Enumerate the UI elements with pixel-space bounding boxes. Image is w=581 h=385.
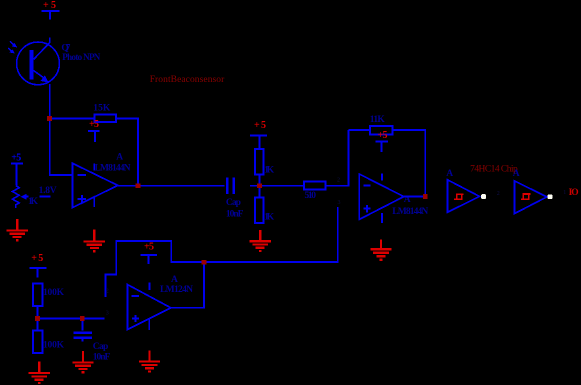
power +5 P7 (divider R6 top) [29,253,46,278]
node C junction dot [35,316,40,321]
resistor R5 11K [370,126,392,135]
resistor R7 100K (lower) [33,330,42,353]
resistor R4 1K (lower) [255,198,264,223]
node U1 output junction dot [136,183,141,188]
svg-text:100K: 100K [43,288,65,298]
wire feedback loop to U4 inverting input [106,241,205,297]
wire U2 non-inverting input from follower [204,207,338,262]
svg-text:+5: +5 [89,119,99,130]
potentiometer RV1 1K [12,186,50,208]
svg-text:Cap: Cap [226,198,241,208]
svg-text:3: 3 [106,311,109,317]
wire C1 to node B and resistor R3 [250,185,304,187]
svg-text:LM8144N: LM8144N [95,163,131,173]
wire node C to U4 non-inverting input [38,317,105,319]
svg-text:2: 2 [337,178,340,184]
svg-text:A: A [116,153,123,163]
svg-text:+5: +5 [378,130,388,141]
svg-text:1.8V: 1.8V [39,186,57,196]
svg-text:LM124N: LM124N [160,285,193,295]
node U2 output junction dot [423,194,428,199]
wire R2 bottom to node B [258,174,260,186]
svg-text:11K: 11K [370,115,386,125]
svg-text:IO: IO [569,188,579,198]
ground (below op-amp U1) [84,230,105,252]
svg-text:1K: 1K [264,213,275,223]
power +5 P6 (op-amp U4 supply) [140,242,157,265]
svg-text:10nF: 10nF [93,352,111,362]
svg-text:Cap: Cap [93,342,109,352]
ground (below R4) [250,230,271,251]
resistor R2 1K (upper) [255,149,264,174]
svg-text:A: A [513,169,520,179]
node A junction dot [47,116,52,121]
wire node A right to resistor R1 [50,117,95,119]
svg-text:100K: 100K [43,341,65,351]
svg-text:1K: 1K [264,166,275,176]
svg-text:A: A [446,169,453,179]
node follower output junction dot [202,260,207,265]
wire follower output up to junction [171,262,204,308]
svg-text:15K: 15K [93,104,111,114]
wire feedback top to resistor R5 [348,129,370,131]
wire U2 output to junction [404,196,426,198]
wire R5 right to U2 output node [393,130,426,194]
svg-text:2: 2 [106,289,109,295]
ground (below capacitor C2) [72,351,93,372]
wire emitter of Q7 down to node A [49,84,51,118]
resistor R6 100K (upper) [33,283,42,306]
svg-text:74HC14 Chip: 74HC14 Chip [470,165,518,175]
svg-text:LM8144N: LM8144N [392,207,428,217]
svg-text:Photo NPN: Photo NPN [62,52,101,62]
power +5 P4 (divider R2 top) [250,120,267,149]
svg-text:2: 2 [497,191,500,197]
op-amp U2 LM8144N [359,173,404,223]
ground (below R7) [29,362,50,383]
capacitor C1 10nF (series coupling) [227,178,234,195]
svg-text:510: 510 [305,191,317,201]
svg-text:3: 3 [338,200,341,206]
op-amp U4 LM124N [127,283,170,330]
ground (below potentiometer RV1) [7,219,28,241]
schmitt inverter U3A [448,180,487,213]
svg-text:1K: 1K [28,197,39,207]
svg-text:1: 1 [563,190,566,196]
resistor R1 15K [95,115,116,122]
svg-text:10nF: 10nF [226,210,244,220]
wire R3 to op-amp U2 inverting branch [326,130,349,186]
wire R1 right side down to op-amp U1 output node [116,118,138,185]
svg-text:A: A [171,275,178,285]
transistor Q7 phototransistor [17,38,60,85]
ground (below op-amp U4) [139,350,160,371]
svg-text:+5: +5 [144,242,154,253]
resistor R3 510 [304,181,325,189]
wire node B to resistor R4 [258,186,260,198]
wire node C to resistor R7 [37,318,39,330]
ground (below op-amp U2) [370,239,391,259]
power +5 P5 (op-amp U2 supply) [376,130,389,152]
wire R6 bottom to node C [37,306,39,319]
power +5 P1 (phototransistor collector supply) [42,0,60,20]
wire U1 output to capacitor C1 [118,185,225,187]
node D junction dot (cap tap) [80,316,85,321]
svg-text:+5: +5 [11,152,21,163]
capacitor C2 10nF (filter) [74,318,92,341]
power +5 P3 (op-amp U1 supply) [88,119,100,142]
schmitt inverter U3B [515,181,553,214]
power +5 P2 (potentiometer top) [11,152,23,185]
svg-text:FrontBeaconsensor: FrontBeaconsensor [150,75,225,85]
light arrow 2 into Q7 [8,48,15,54]
op-amp U1 LM8144N [73,163,118,207]
light arrow 1 into Q7 [10,41,17,47]
wire node A down to op-amp U1 inverting input [50,118,73,175]
node B junction dot [257,183,262,188]
